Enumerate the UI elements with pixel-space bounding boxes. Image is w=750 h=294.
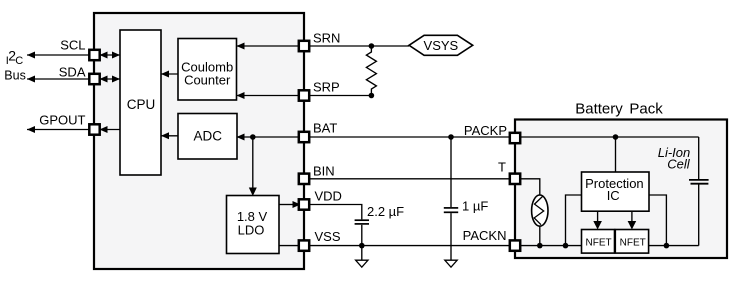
svg-text:Bus: Bus [4, 69, 26, 83]
svg-text:PACKN: PACKN [463, 228, 507, 243]
svg-text:SDA: SDA [59, 65, 86, 80]
svg-text:SRN: SRN [313, 31, 340, 46]
svg-text:T: T [498, 159, 506, 174]
svg-text:NFET: NFET [586, 238, 612, 249]
svg-text:CPU: CPU [127, 97, 156, 112]
svg-text:BAT: BAT [313, 121, 337, 136]
svg-text:VDD: VDD [315, 189, 342, 204]
svg-text:BIN: BIN [313, 164, 335, 179]
svg-text:1 µF: 1 µF [462, 199, 488, 214]
svg-text:VSYS: VSYS [424, 38, 459, 53]
svg-text:2.2 µF: 2.2 µF [367, 204, 404, 219]
svg-text:GPOUT: GPOUT [39, 113, 85, 128]
svg-text:NFET: NFET [620, 238, 646, 249]
svg-text:LDO: LDO [238, 223, 265, 238]
svg-text:ADC: ADC [194, 128, 223, 143]
svg-text:VSS: VSS [315, 229, 341, 244]
svg-text:Cell: Cell [667, 157, 691, 172]
svg-text:IC: IC [607, 188, 620, 203]
svg-text:C: C [15, 55, 23, 67]
svg-text:SRP: SRP [313, 80, 340, 95]
svg-text:Counter: Counter [184, 73, 231, 88]
svg-text:PACKP: PACKP [464, 123, 507, 138]
svg-text:Battery Pack: Battery Pack [575, 101, 663, 118]
svg-text:SCL: SCL [60, 37, 85, 52]
